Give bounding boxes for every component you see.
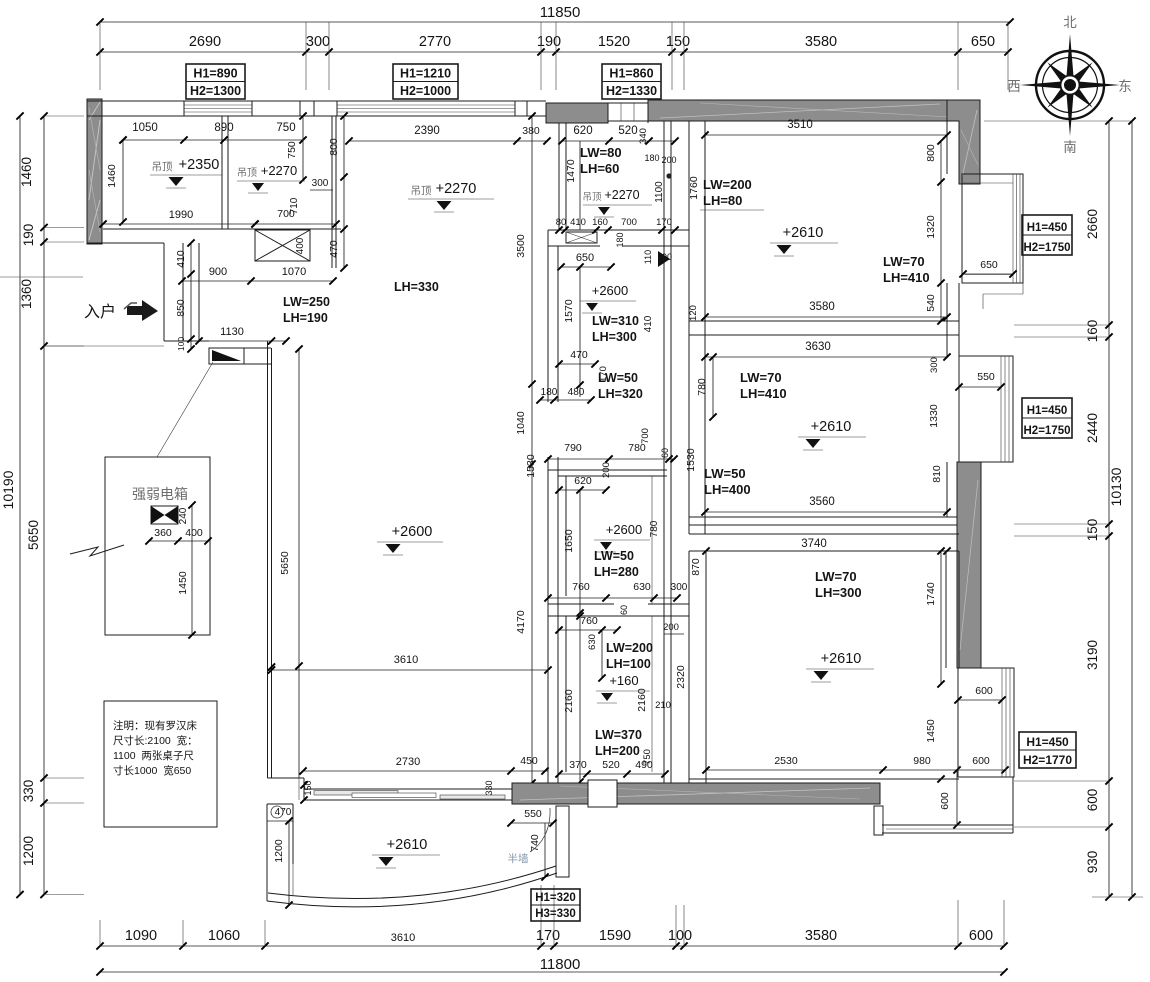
entry arrow: [127, 300, 158, 321]
svg-text:550: 550: [524, 808, 542, 820]
svg-text:1100: 1100: [654, 181, 665, 203]
bath top wall: [548, 469, 667, 471]
svg-text:LW=50: LW=50: [594, 549, 634, 563]
bath bottom wall band: [548, 603, 614, 605]
svg-text:80: 80: [556, 217, 567, 228]
svg-text:600: 600: [1085, 789, 1100, 812]
svg-text:LH=200: LH=200: [595, 744, 640, 758]
svg-text:1530: 1530: [525, 454, 537, 478]
svg-text:160: 160: [1085, 320, 1100, 343]
svg-text:1450: 1450: [177, 571, 189, 595]
svg-text:520: 520: [618, 125, 637, 137]
svg-text:LW=200: LW=200: [606, 641, 653, 655]
svg-text:H1=450: H1=450: [1027, 405, 1068, 417]
bedroom1 south wall: [689, 320, 959, 322]
svg-text:200: 200: [663, 622, 679, 633]
svg-text:850: 850: [175, 299, 187, 317]
svg-text:780: 780: [696, 378, 708, 396]
svg-text:LH=300: LH=300: [815, 585, 862, 600]
svg-text:11800: 11800: [540, 956, 581, 973]
bedroom2 west wall: [688, 335, 690, 534]
svg-text:吊顶: 吊顶: [237, 167, 257, 179]
balcony bottom-right 600 vertical: [956, 770, 958, 825]
svg-text:800: 800: [328, 138, 340, 156]
closet east wall: [331, 116, 333, 268]
svg-text:LH=330: LH=330: [394, 280, 439, 294]
right chain witness stubs: [984, 120, 1132, 122]
top-left hatched shear wall: [87, 99, 102, 244]
svg-text:10130: 10130: [1108, 467, 1124, 506]
entry jamb wall: [182, 243, 184, 341]
svg-text:+2600: +2600: [606, 522, 643, 537]
svg-text:H1=450: H1=450: [1027, 222, 1068, 234]
top dimension chain overall 11850: [100, 21, 1010, 23]
bath west inner: [565, 476, 567, 596]
svg-text:1760: 1760: [688, 176, 700, 200]
svg-text:+2350: +2350: [179, 157, 220, 173]
svg-text:870: 870: [690, 558, 702, 576]
entry 410/850/100 vertical dims: [190, 243, 192, 349]
svg-text:380: 380: [522, 125, 540, 137]
svg-text:1090: 1090: [125, 928, 157, 944]
svg-text:H2=1300: H2=1300: [190, 84, 241, 98]
svg-text:200: 200: [661, 155, 676, 165]
bottom gray wall band: [512, 783, 880, 804]
svg-text:1100 两张桌子尺: 1100 两张桌子尺: [113, 749, 194, 762]
svg-text:2770: 2770: [419, 34, 451, 50]
svg-text:370: 370: [569, 759, 587, 771]
svg-text:+2610: +2610: [821, 651, 862, 667]
svg-text:330: 330: [484, 780, 494, 795]
bottom chain witness stubs: [99, 920, 101, 946]
svg-text:400: 400: [295, 237, 306, 254]
svg-text:LH=80: LH=80: [703, 193, 742, 208]
svg-text:1320: 1320: [925, 215, 937, 239]
svg-text:1990: 1990: [169, 209, 193, 221]
svg-text:LW=50: LW=50: [598, 371, 638, 385]
right outer chain 10130: [1131, 121, 1133, 897]
svg-text:650: 650: [576, 252, 594, 264]
svg-text:170: 170: [536, 928, 560, 944]
svg-text:410: 410: [175, 250, 187, 268]
svg-text:300: 300: [671, 582, 688, 593]
svg-text:LW=250: LW=250: [283, 295, 330, 309]
svg-text:吊顶: 吊顶: [152, 161, 173, 173]
svg-text:LW=310: LW=310: [592, 314, 639, 328]
svg-text:2160: 2160: [563, 689, 575, 713]
svg-text:2440: 2440: [1085, 413, 1100, 443]
svg-text:H1=450: H1=450: [1026, 735, 1069, 749]
bottom chain row2 11800: [100, 971, 1004, 973]
closet 750 vertical dim: [302, 116, 304, 180]
svg-text:1470: 1470: [565, 159, 577, 183]
svg-text:西: 西: [1007, 79, 1021, 94]
svg-text:注明：现有罗汉床: 注明：现有罗汉床: [113, 719, 197, 732]
svg-text:1520: 1520: [598, 34, 630, 50]
H-box right3: [1019, 732, 1076, 768]
svg-text:470: 470: [328, 240, 340, 258]
svg-text:1460: 1460: [19, 157, 34, 187]
top-right long gray wall: [648, 100, 959, 121]
living room west wall: [267, 341, 269, 778]
svg-text:2660: 2660: [1085, 209, 1100, 239]
svg-text:1330: 1330: [928, 404, 940, 428]
living 5650 dim line: [298, 349, 300, 778]
svg-text:410: 410: [643, 315, 654, 332]
svg-text:700: 700: [277, 208, 295, 220]
room south wall band over entry: [103, 228, 341, 230]
svg-text:700: 700: [621, 217, 637, 228]
svg-text:2160: 2160: [636, 688, 648, 712]
svg-text:LW=50: LW=50: [704, 466, 746, 481]
svg-text:10190: 10190: [0, 470, 16, 509]
wall stub door to living: [244, 347, 271, 349]
svg-text:600: 600: [975, 685, 993, 697]
svg-text:3190: 3190: [1085, 640, 1100, 670]
wall break symbol: [70, 545, 124, 556]
svg-text:5650: 5650: [279, 551, 291, 575]
svg-text:1200: 1200: [273, 839, 285, 863]
svg-text:北: 北: [1063, 15, 1077, 30]
svg-text:150: 150: [666, 34, 690, 50]
compass rose: [1067, 34, 1074, 85]
svg-text:吊顶: 吊顶: [411, 185, 432, 197]
svg-text:300: 300: [306, 34, 330, 50]
svg-text:240: 240: [178, 507, 189, 524]
bath 1650 rotated: [579, 490, 581, 613]
svg-text:1590: 1590: [599, 928, 631, 944]
bedroom1 west wall: [688, 121, 690, 335]
svg-text:LH=400: LH=400: [704, 482, 751, 497]
svg-text:LH=60: LH=60: [580, 161, 619, 176]
kitchen west wall: [558, 123, 560, 230]
svg-text:330: 330: [21, 780, 36, 803]
window living room top: [337, 104, 515, 106]
H-box top2: [393, 64, 458, 99]
svg-text:700: 700: [640, 428, 651, 444]
entry door frame: [209, 348, 244, 364]
svg-text:LH=190: LH=190: [283, 311, 328, 325]
bedroom1 right rotated dims 800/1320/540: [940, 141, 942, 321]
svg-text:3610: 3610: [391, 932, 415, 944]
svg-text:150: 150: [303, 780, 313, 795]
svg-text:1060: 1060: [208, 928, 240, 944]
svg-text:360: 360: [154, 527, 172, 539]
H-box top3: [602, 64, 661, 99]
corridor 1570 rotated: [579, 267, 581, 397]
kitchen 1470 rotated: [579, 141, 581, 230]
svg-text:180: 180: [615, 232, 625, 247]
svg-text:150: 150: [1085, 519, 1100, 542]
svg-text:180: 180: [644, 153, 659, 163]
svg-text:630: 630: [587, 634, 598, 650]
H-box right2: [1022, 398, 1072, 438]
svg-text:740: 740: [529, 834, 541, 852]
svg-text:LW=80: LW=80: [580, 145, 622, 160]
svg-text:1360: 1360: [19, 279, 34, 309]
wall pier at x300: [299, 101, 301, 116]
top chain witness lines: [99, 22, 101, 90]
top dimension chain row2: [100, 51, 1008, 53]
svg-text:890: 890: [214, 122, 233, 134]
bedroom3 1740 rotated: [940, 551, 942, 684]
svg-text:1450: 1450: [925, 719, 937, 743]
balcony BR west pillar: [874, 806, 883, 835]
svg-text:600: 600: [972, 755, 990, 767]
svg-text:1070: 1070: [282, 266, 306, 278]
svg-text:H2=1750: H2=1750: [1024, 242, 1071, 254]
bedroom3 north wall: [689, 533, 959, 535]
svg-text:110: 110: [643, 250, 653, 264]
H-box bottom: [531, 889, 580, 921]
toilet 630 rotated: [601, 630, 603, 678]
svg-text:900: 900: [209, 266, 227, 278]
svg-text:650: 650: [971, 34, 995, 50]
svg-text:750: 750: [286, 141, 298, 159]
bay window 2: [959, 356, 1013, 462]
svg-text:520: 520: [602, 759, 620, 771]
svg-text:+2600: +2600: [592, 283, 629, 298]
svg-text:550: 550: [977, 371, 995, 383]
corridor west wall pair: [547, 230, 549, 402]
svg-text:810: 810: [931, 465, 943, 483]
svg-text:LH=300: LH=300: [592, 330, 637, 344]
svg-text:半墙: 半墙: [508, 852, 529, 865]
svg-text:2730: 2730: [396, 756, 420, 768]
H-box right1: [1022, 215, 1072, 255]
svg-text:H1=890: H1=890: [193, 67, 237, 81]
svg-text:760: 760: [572, 581, 590, 593]
svg-text:LH=280: LH=280: [594, 565, 639, 579]
window top-left room: [184, 104, 252, 106]
svg-text:300: 300: [312, 178, 329, 189]
living 3500/1040/4170 vertical dim: [531, 116, 533, 783]
svg-text:630: 630: [633, 581, 651, 593]
svg-text:210: 210: [655, 700, 671, 711]
svg-text:寸长1000 宽650: 寸长1000 宽650: [113, 764, 191, 777]
svg-text:+2610: +2610: [387, 837, 428, 853]
entry outer wall: [163, 243, 165, 341]
svg-text:+160: +160: [609, 673, 638, 688]
top wall double line (left span): [87, 100, 546, 102]
svg-text:1570: 1570: [563, 299, 575, 323]
balcony door gap in band: [588, 780, 617, 807]
svg-text:1650: 1650: [563, 529, 575, 553]
svg-text:980: 980: [913, 755, 931, 767]
bay window 1: [962, 174, 1023, 283]
svg-text:H3=330: H3=330: [535, 908, 576, 920]
svg-text:60: 60: [660, 448, 670, 458]
kitchen door leaf: [658, 251, 670, 267]
svg-text:4170: 4170: [515, 610, 527, 634]
svg-text:300: 300: [929, 357, 940, 373]
bottom chain row1: [100, 945, 1004, 947]
bedroomA 1460 vertical: [122, 140, 124, 222]
kitchen/bath east wall: [663, 121, 665, 783]
svg-text:H2=1000: H2=1000: [400, 84, 451, 98]
svg-text:H2=1750: H2=1750: [1024, 425, 1071, 437]
toilet 2160 rotated x2: [579, 616, 581, 782]
svg-text:东: 东: [1118, 79, 1132, 94]
right gray pier below bay2: [957, 462, 981, 668]
bay1 step lines: [983, 293, 1023, 295]
balcony SE pillar: [556, 806, 569, 877]
bowtie symbol: [151, 506, 178, 524]
svg-text:800: 800: [925, 144, 937, 162]
svg-text:100: 100: [176, 337, 186, 351]
svg-text:+2270: +2270: [436, 181, 477, 197]
svg-text:1740: 1740: [925, 582, 937, 606]
left chain witness stubs: [44, 115, 84, 117]
svg-text:3630: 3630: [805, 341, 831, 353]
svg-text:620: 620: [573, 125, 592, 137]
top-left room / closet divider wall: [221, 116, 223, 229]
svg-text:强弱电箱: 强弱电箱: [132, 486, 188, 502]
svg-text:LW=200: LW=200: [703, 177, 752, 192]
svg-text:540: 540: [925, 294, 937, 312]
svg-text:LW=70: LW=70: [740, 370, 782, 385]
svg-text:3500: 3500: [515, 234, 527, 258]
svg-text:760: 760: [580, 615, 598, 627]
svg-text:+2610: +2610: [783, 225, 824, 241]
svg-text:1460: 1460: [106, 164, 118, 188]
right inner chain: [1108, 121, 1110, 897]
svg-text:1050: 1050: [132, 122, 158, 134]
bath east wall: [651, 476, 653, 604]
svg-text:H2=1770: H2=1770: [1023, 753, 1072, 767]
svg-text:190: 190: [21, 224, 36, 247]
bay window 3: [958, 668, 1014, 777]
svg-text:170: 170: [656, 217, 672, 228]
svg-text:LW=70: LW=70: [883, 254, 925, 269]
toilet west inner: [565, 616, 567, 772]
svg-text:H1=1210: H1=1210: [400, 67, 451, 81]
bedroom2 east wall: [946, 335, 948, 356]
bedroom3 south wall: [689, 778, 959, 780]
svg-text:LH=410: LH=410: [883, 270, 930, 285]
svg-text:1040: 1040: [515, 411, 527, 435]
bedroom2 780 rotated: [712, 357, 714, 417]
svg-text:3580: 3580: [809, 301, 835, 313]
balcony curved parapet: [268, 866, 556, 899]
svg-text:H1=860: H1=860: [609, 67, 653, 81]
svg-text:入户: 入户: [84, 303, 116, 321]
svg-text:1530: 1530: [685, 448, 697, 472]
svg-text:3560: 3560: [809, 496, 835, 508]
kitchen sink: [566, 232, 597, 243]
svg-text:3510: 3510: [787, 119, 813, 131]
entry door black leaf: [212, 350, 241, 361]
wall pier at x515-546: [526, 101, 528, 116]
svg-text:尺寸长:2100 宽：: 尺寸长:2100 宽：: [113, 734, 198, 747]
svg-text:LH=100: LH=100: [606, 657, 651, 671]
svg-text:600: 600: [969, 928, 993, 944]
svg-text:160: 160: [592, 217, 608, 228]
svg-text:190: 190: [537, 34, 561, 50]
svg-text:+2270: +2270: [261, 163, 298, 178]
svg-text:620: 620: [574, 475, 592, 487]
bedroom2 south wall: [689, 516, 959, 518]
svg-text:南: 南: [1063, 140, 1077, 155]
balcony slider window: [304, 788, 512, 790]
svg-text:100: 100: [668, 928, 692, 944]
svg-text:650: 650: [980, 259, 998, 271]
kitchen window: [608, 102, 648, 104]
H-box top1: [186, 64, 245, 99]
svg-text:3610: 3610: [394, 654, 418, 666]
electric box outline: [105, 457, 210, 635]
svg-text:5650: 5650: [26, 520, 41, 550]
electric box leader line: [157, 362, 213, 457]
living SW step walls: [268, 777, 305, 779]
page-edge leader top-left: [0, 276, 83, 278]
svg-text:2530: 2530: [774, 755, 798, 767]
svg-text:400: 400: [185, 527, 203, 539]
kitchen south wall: [548, 229, 689, 231]
svg-text:120: 120: [688, 305, 699, 321]
svg-text:60: 60: [619, 605, 629, 615]
svg-text:450: 450: [520, 755, 538, 767]
svg-text:11850: 11850: [540, 4, 581, 21]
svg-text:2320: 2320: [675, 665, 687, 689]
svg-text:3740: 3740: [801, 538, 827, 550]
bedroomA dim row 1050/890/750: [123, 139, 303, 141]
left inner chain: [43, 116, 45, 895]
svg-text:H1=320: H1=320: [535, 892, 576, 904]
svg-text:3580: 3580: [805, 928, 837, 944]
bedroom3 west wall: [688, 551, 690, 783]
note box: [104, 701, 217, 827]
svg-text:+2270: +2270: [604, 188, 639, 202]
balcony bottom-right outline: [882, 824, 1013, 826]
svg-text:LH=320: LH=320: [598, 387, 643, 401]
svg-text:930: 930: [1085, 851, 1100, 874]
svg-text:470: 470: [570, 349, 588, 361]
bedroom3 east wall: [945, 551, 947, 668]
kitchen top gray wall: [546, 103, 608, 123]
vertical dim 800/470 at x344: [343, 116, 345, 268]
svg-text:780: 780: [649, 520, 660, 537]
svg-text:吊顶: 吊顶: [582, 192, 602, 203]
svg-text:2390: 2390: [414, 125, 440, 137]
svg-text:600: 600: [939, 792, 951, 810]
svg-text:750: 750: [276, 122, 295, 134]
svg-text:LH=410: LH=410: [740, 386, 787, 401]
svg-text:410: 410: [570, 217, 586, 228]
svg-text:+2600: +2600: [392, 524, 433, 540]
svg-text:LW=70: LW=70: [815, 569, 857, 584]
crossed cabinet box in closet: [255, 230, 310, 261]
left outer chain 10190: [19, 116, 21, 895]
svg-text:1130: 1130: [220, 326, 244, 338]
svg-text:H2=1330: H2=1330: [606, 84, 657, 98]
balcony 1200 rotated: [288, 821, 290, 905]
svg-text:490: 490: [635, 759, 653, 771]
svg-text:1200: 1200: [21, 836, 36, 866]
svg-text:790: 790: [564, 442, 582, 454]
svg-text:3580: 3580: [805, 34, 837, 50]
svg-text:2690: 2690: [189, 34, 221, 50]
svg-text:480: 480: [568, 387, 585, 398]
NE corner gray wedge: [947, 100, 980, 184]
svg-text:LW=370: LW=370: [595, 728, 642, 742]
svg-text:+2610: +2610: [811, 419, 852, 435]
bedroom1 east wall: [946, 121, 948, 174]
